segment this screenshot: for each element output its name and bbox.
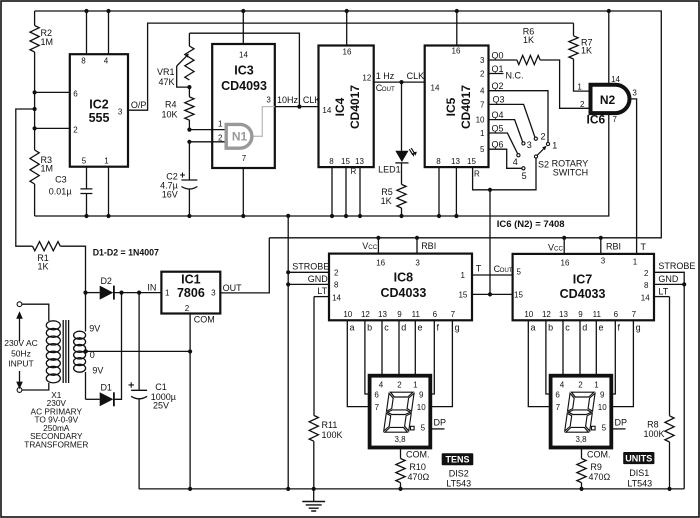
- label IC4: [333, 85, 362, 129]
- svg-text:e: e: [599, 323, 604, 333]
- svg-text:R11: R11: [322, 420, 338, 430]
- svg-text:6: 6: [433, 310, 438, 319]
- pin 5 IC2: [82, 157, 87, 189]
- svg-text:T: T: [476, 264, 482, 274]
- svg-text:15: 15: [458, 291, 467, 300]
- label IC8: [380, 271, 426, 301]
- pin 10 Q4 wire to contact 3: [476, 110, 523, 142]
- wire N1 output gray: [253, 107, 274, 137]
- svg-text:Q1: Q1: [492, 64, 504, 74]
- display DIS1 DP stub: [611, 417, 627, 429]
- svg-text:230V AC: 230V AC: [4, 338, 38, 348]
- resistor R5: [381, 163, 407, 218]
- led LED1: [378, 80, 417, 174]
- svg-text:1K: 1K: [381, 196, 392, 206]
- svg-text:CD4017: CD4017: [459, 85, 473, 129]
- svg-text:DIS2: DIS2: [449, 469, 469, 479]
- svg-text:10: 10: [343, 310, 352, 319]
- svg-text:2: 2: [480, 70, 485, 79]
- pin 3 IC6 output T wire: [630, 89, 638, 254]
- display DIS2 DP stub: [430, 417, 446, 429]
- svg-text:6: 6: [374, 391, 379, 400]
- switch S2 contact 1: [546, 141, 557, 151]
- diode D2: [83, 276, 114, 300]
- terminal input bottom: [17, 388, 22, 393]
- svg-text:c: c: [565, 323, 570, 333]
- svg-text:11: 11: [593, 310, 602, 319]
- svg-text:4: 4: [560, 380, 565, 389]
- pin 14 IC6: [607, 9, 621, 84]
- svg-text:3: 3: [118, 108, 123, 117]
- label IC2: [89, 98, 110, 126]
- svg-text:7: 7: [375, 403, 380, 412]
- svg-text:RBI: RBI: [606, 242, 621, 252]
- svg-text:IC2: IC2: [89, 98, 109, 112]
- pin 2 IC2 wire: [33, 125, 79, 134]
- svg-text:16: 16: [343, 48, 352, 57]
- pin 14 IC7 LT wire: [641, 287, 670, 303]
- resistor R6: [517, 27, 540, 65]
- svg-text:SWITCH: SWITCH: [553, 168, 589, 178]
- svg-text:R10: R10: [409, 462, 426, 472]
- svg-text:2: 2: [580, 100, 585, 109]
- tag TENS: [442, 453, 474, 488]
- wire segment e IC7 pin 11 to DIS1: [593, 310, 604, 376]
- label IC6: [587, 113, 606, 127]
- pin 16 IC4: [343, 9, 352, 57]
- svg-text:1: 1: [218, 120, 223, 129]
- svg-text:7: 7: [556, 403, 561, 412]
- svg-text:6: 6: [555, 391, 560, 400]
- wire segment a IC7 pin 10 to DIS1: [524, 310, 550, 407]
- svg-text:10Hz: 10Hz: [277, 95, 299, 105]
- wire input top to primary: [22, 304, 49, 321]
- svg-text:2: 2: [185, 304, 190, 313]
- svg-text:IC3: IC3: [234, 64, 254, 78]
- wire ground drop left: [286, 214, 290, 491]
- and gate IC6 N2: [591, 85, 630, 113]
- wire R2 to R3 node chain: [34, 52, 36, 150]
- svg-text:DP: DP: [615, 417, 628, 427]
- wire segment d IC8 pin 9 to DIS2: [397, 310, 406, 376]
- capacitor C2: [160, 142, 197, 218]
- svg-text:7: 7: [613, 115, 618, 124]
- display DIS2 seven segment digit: [384, 392, 415, 432]
- wire reset line down to counters: [488, 188, 492, 295]
- switch S2 contact 4: [513, 154, 520, 167]
- pin 2 IC1 COM wire: [185, 304, 215, 491]
- svg-text:100K: 100K: [322, 430, 343, 440]
- svg-text:100K: 100K: [644, 429, 665, 439]
- svg-text:T: T: [641, 242, 647, 252]
- svg-text:3,8: 3,8: [575, 435, 587, 444]
- wire segment f IC7 pin 6 to DIS1: [611, 310, 620, 394]
- pin 3 IC7 RBI: [599, 236, 621, 266]
- svg-text:12: 12: [361, 310, 370, 319]
- svg-text:d: d: [401, 323, 406, 333]
- pin 16 IC7 Vcc: [548, 236, 570, 268]
- svg-text:VR1: VR1: [157, 67, 175, 77]
- transformer X1 secondary coil: [74, 331, 86, 372]
- svg-text:0: 0: [90, 350, 95, 360]
- capacitor C3: [49, 175, 93, 219]
- wire secondary bottom 9V tap: [86, 366, 104, 400]
- svg-text:2: 2: [644, 269, 649, 278]
- wire segment c IC8 pin 13 to DIS2: [378, 310, 389, 376]
- svg-text:14: 14: [239, 51, 248, 60]
- svg-text:IC5: IC5: [444, 97, 458, 116]
- ground symbol: [302, 487, 325, 511]
- svg-text:5: 5: [517, 267, 522, 276]
- svg-text:470Ω: 470Ω: [408, 472, 430, 482]
- svg-text:g: g: [455, 323, 460, 333]
- svg-text:8: 8: [644, 281, 649, 290]
- wire R7 to N2 pin1: [574, 59, 590, 109]
- svg-text:GND: GND: [308, 274, 329, 284]
- pin 1 IC1 IN label: [147, 283, 170, 298]
- wire VR1 feedback from pin3: [189, 33, 301, 109]
- svg-text:3,8: 3,8: [394, 435, 406, 444]
- pin 12 IC4 1Hz Cout wire: [362, 71, 424, 93]
- svg-text:8: 8: [436, 157, 441, 166]
- svg-text:CD4093: CD4093: [221, 79, 267, 93]
- label S2 ROTARY SWITCH: [538, 159, 588, 178]
- wire segment e IC8 pin 11 to DIS2: [412, 310, 423, 376]
- switch S2 contact 2: [534, 132, 545, 142]
- diode D1: [86, 383, 114, 407]
- pin 8 IC5: [436, 157, 441, 218]
- svg-text:Q6: Q6: [492, 140, 504, 150]
- svg-text:7806: 7806: [177, 286, 205, 300]
- ic IC4 CD4017 box: [319, 46, 374, 168]
- svg-text:LT543: LT543: [446, 479, 471, 489]
- svg-text:RBI: RBI: [421, 241, 436, 251]
- svg-text:3: 3: [415, 259, 420, 268]
- svg-text:Q5: Q5: [492, 123, 504, 133]
- display DIS2 pin labels: [374, 380, 426, 444]
- pin 1 IC2: [104, 157, 110, 219]
- svg-text:1: 1: [594, 380, 599, 389]
- pin 5 Q6 wire to contact 5: [480, 140, 522, 169]
- svg-text:2: 2: [334, 269, 339, 278]
- svg-text:5: 5: [82, 157, 87, 166]
- svg-text:4: 4: [513, 157, 518, 167]
- svg-text:1: 1: [552, 141, 557, 151]
- svg-text:R: R: [474, 170, 480, 179]
- svg-text:2: 2: [397, 380, 402, 389]
- pin 3 Q0 wire: [480, 51, 517, 66]
- svg-text:C1: C1: [155, 382, 167, 392]
- svg-text:O/P: O/P: [131, 100, 147, 110]
- svg-text:470Ω: 470Ω: [589, 472, 611, 482]
- svg-text:14: 14: [431, 84, 440, 93]
- wire D1 to IN node: [114, 293, 122, 400]
- pin 15 IC7 label: [514, 291, 523, 300]
- resistor R9: [577, 448, 611, 492]
- svg-text:15: 15: [341, 157, 350, 166]
- svg-text:STROBE: STROBE: [292, 262, 329, 272]
- svg-text:2: 2: [578, 380, 583, 389]
- svg-text:9V: 9V: [89, 323, 100, 333]
- svg-text:LT: LT: [317, 286, 327, 296]
- svg-text:4: 4: [480, 87, 485, 96]
- svg-text:8: 8: [334, 281, 339, 290]
- svg-text:13: 13: [559, 310, 568, 319]
- wire segment g IC8 pin 7 to DIS2: [430, 310, 459, 407]
- svg-text:12: 12: [362, 74, 371, 83]
- svg-text:S2: S2: [538, 160, 549, 170]
- svg-text:16: 16: [452, 47, 461, 56]
- svg-text:47K: 47K: [158, 77, 174, 87]
- svg-text:N.C.: N.C.: [506, 70, 524, 80]
- svg-text:3: 3: [211, 289, 216, 298]
- svg-text:1: 1: [104, 157, 109, 166]
- arrow input up: [16, 311, 23, 341]
- wire IC2 to R1 branch: [16, 107, 37, 246]
- svg-text:1K: 1K: [37, 262, 48, 272]
- pin 3 IC2 O/P wire: [118, 23, 574, 116]
- pin 14 IC3: [239, 9, 248, 60]
- svg-text:15: 15: [467, 157, 476, 166]
- wire segment b IC7 pin 12 to DIS1: [542, 310, 553, 394]
- pin 7 Q3 wire to contact 2: [480, 95, 535, 138]
- svg-text:15: 15: [514, 291, 523, 300]
- wire secondary centre tap 0: [84, 349, 192, 360]
- wire segment f IC8 pin 6 to DIS2: [430, 310, 439, 394]
- resistor R3: [30, 150, 53, 216]
- ic IC1 7806 box: [161, 272, 220, 314]
- pin 15 IC4: [341, 157, 350, 218]
- terminal input top: [17, 302, 22, 307]
- svg-text:13: 13: [451, 157, 460, 166]
- svg-text:13: 13: [355, 157, 364, 166]
- svg-text:UNITS: UNITS: [625, 453, 652, 463]
- svg-text:c: c: [384, 323, 389, 333]
- wire D2 to IC1 IN: [114, 291, 161, 295]
- pin 2 IC8 STROBE wire: [286, 262, 339, 278]
- svg-text:16V: 16V: [162, 190, 178, 200]
- svg-text:TENS: TENS: [445, 455, 469, 465]
- svg-text:10K: 10K: [161, 110, 177, 120]
- svg-text:3: 3: [527, 140, 532, 150]
- ic IC7 CD4033 box: [513, 254, 654, 320]
- wire segment d IC7 pin 9 to DIS1: [578, 310, 587, 376]
- wire ground rail bottom: [139, 488, 684, 490]
- pin 7 IC3: [241, 154, 247, 218]
- svg-text:a: a: [531, 323, 536, 333]
- svg-text:3: 3: [480, 56, 485, 65]
- svg-text:N2: N2: [600, 93, 616, 107]
- svg-text:b: b: [367, 323, 372, 333]
- pin 4 IC2: [104, 9, 111, 66]
- svg-text:OUT: OUT: [500, 267, 513, 274]
- svg-text:50Hz: 50Hz: [11, 349, 31, 359]
- resistor R10: [396, 448, 430, 492]
- svg-text:IC6 (N2) = 7408: IC6 (N2) = 7408: [497, 219, 565, 230]
- wire segment c IC7 pin 13 to DIS1: [559, 310, 570, 376]
- svg-text:1: 1: [633, 258, 638, 267]
- wire R6 to N2 pin2: [540, 60, 589, 108]
- svg-text:R: R: [351, 167, 357, 176]
- svg-text:CD4033: CD4033: [380, 286, 426, 300]
- svg-text:10: 10: [476, 116, 485, 125]
- svg-text:2: 2: [73, 125, 78, 134]
- pin 3 IC1 OUT wire: [211, 238, 269, 298]
- svg-text:CD4033: CD4033: [560, 287, 606, 301]
- wire +6V top rail: [35, 11, 662, 238]
- pin 5 IC7 label: [517, 267, 522, 276]
- pin 8 IC8 GND wire: [286, 274, 339, 290]
- svg-text:7: 7: [451, 310, 456, 319]
- resistor R7: [569, 23, 593, 59]
- svg-text:INPUT: INPUT: [8, 359, 34, 369]
- svg-text:Q3: Q3: [493, 95, 505, 105]
- svg-text:e: e: [418, 323, 423, 333]
- svg-text:DP: DP: [434, 417, 447, 427]
- svg-text:1: 1: [165, 289, 170, 298]
- svg-text:D1-D2 = 1N4007: D1-D2 = 1N4007: [93, 248, 159, 258]
- svg-text:3: 3: [632, 89, 637, 98]
- label IC3: [221, 64, 267, 94]
- switch S2 contact 5: [522, 167, 527, 181]
- svg-text:2: 2: [541, 132, 546, 142]
- svg-text:g: g: [636, 323, 641, 333]
- svg-text:N1: N1: [232, 130, 248, 144]
- svg-text:D1: D1: [100, 383, 112, 393]
- svg-text:COM.: COM.: [406, 450, 430, 460]
- display DIS1 pin labels: [555, 380, 607, 444]
- pin 1 IC3 wire: [187, 120, 226, 132]
- svg-text:7: 7: [242, 154, 247, 163]
- svg-text:R8: R8: [647, 420, 659, 430]
- svg-text:GND: GND: [658, 274, 679, 284]
- switch S2 pole and wiper arm: [534, 146, 546, 158]
- svg-text:9: 9: [578, 310, 583, 319]
- svg-text:D2: D2: [100, 276, 112, 286]
- svg-text:1M: 1M: [41, 164, 54, 174]
- display DIS1 box: [551, 376, 612, 448]
- wire segment a IC8 pin 10 to DIS2: [343, 310, 369, 407]
- label IC5: [444, 85, 473, 129]
- svg-text:11: 11: [412, 310, 421, 319]
- display DIS1 seven segment digit: [565, 392, 596, 432]
- pin 3 IC3 10Hz CLK wire: [266, 95, 320, 107]
- svg-text:9: 9: [397, 310, 402, 319]
- resistor R4: [161, 87, 194, 130]
- svg-text:6: 6: [73, 90, 78, 99]
- ic IC5 CD4017 box: [425, 46, 489, 168]
- svg-text:OUT: OUT: [223, 283, 243, 293]
- svg-text:2: 2: [218, 134, 223, 143]
- svg-text:0.01µ: 0.01µ: [49, 187, 72, 197]
- svg-text:OUT: OUT: [382, 86, 395, 93]
- svg-text:DIS1: DIS1: [629, 468, 649, 478]
- svg-text:12: 12: [542, 310, 551, 319]
- svg-text:COM.: COM.: [587, 450, 611, 460]
- resistor R8: [644, 297, 675, 491]
- label IC1 7806: [177, 273, 205, 301]
- capacitor C1: [129, 293, 176, 489]
- pin 2 IC3 wire: [187, 134, 226, 144]
- svg-text:1M: 1M: [41, 37, 54, 47]
- svg-text:LED1: LED1: [378, 164, 401, 174]
- ic IC8 CD4033 box: [329, 254, 472, 321]
- svg-text:14: 14: [332, 294, 341, 303]
- svg-text:d: d: [582, 323, 587, 333]
- wire input bottom to primary: [22, 383, 49, 390]
- arrow input down: [16, 371, 23, 389]
- svg-text:3: 3: [601, 257, 606, 266]
- pin 13 IC4: [355, 157, 364, 218]
- wire secondary top 9V tap: [86, 293, 101, 334]
- svg-text:1: 1: [480, 129, 485, 138]
- svg-text:7: 7: [632, 310, 637, 319]
- resistor R1: [33, 242, 61, 272]
- svg-text:8: 8: [81, 57, 86, 66]
- transformer X1 primary coil: [46, 321, 60, 383]
- svg-text:CC: CC: [368, 244, 377, 251]
- svg-text:10: 10: [598, 403, 607, 412]
- pin 8 IC2: [81, 9, 88, 66]
- svg-text:1K: 1K: [523, 35, 534, 45]
- pin 14 IC8 LT wire: [314, 286, 342, 303]
- svg-text:IC4: IC4: [333, 97, 347, 116]
- svg-text:1: 1: [413, 380, 418, 389]
- transformer X1 core: [63, 320, 68, 383]
- svg-text:5: 5: [421, 424, 426, 433]
- pin 8 IC4: [329, 157, 334, 218]
- pin 14 IC4 label: [322, 106, 331, 115]
- display DIS2 box: [370, 376, 431, 448]
- svg-text:LT543: LT543: [627, 478, 652, 488]
- pin 16 IC5: [452, 9, 461, 56]
- pin 6 IC2 wire: [33, 90, 79, 99]
- switch S2 contact 3: [522, 140, 532, 150]
- svg-text:5: 5: [602, 424, 607, 433]
- pin 4 Q2 wire to contact 1: [480, 81, 548, 142]
- svg-text:IC7: IC7: [573, 273, 593, 287]
- wire 0V rail top section: [35, 114, 609, 217]
- svg-text:4: 4: [379, 380, 384, 389]
- svg-text:IC8: IC8: [394, 271, 414, 285]
- wire segment g IC7 pin 7 to DIS1: [611, 310, 640, 407]
- svg-text:5: 5: [522, 171, 527, 181]
- svg-text:CD4017: CD4017: [348, 85, 362, 129]
- tag UNITS: [623, 452, 654, 488]
- svg-text:1: 1: [577, 83, 582, 92]
- pin 2 Q1 wire N.C.: [480, 64, 523, 81]
- svg-text:STROBE: STROBE: [658, 261, 695, 271]
- svg-text:R9: R9: [590, 462, 602, 472]
- label D1-D2 = 1N4007: [93, 248, 159, 258]
- svg-text:CC: CC: [554, 246, 563, 253]
- svg-text:7: 7: [480, 100, 485, 109]
- svg-text:1K: 1K: [581, 46, 592, 56]
- svg-text:IN: IN: [147, 283, 156, 293]
- pin 13 IC5: [451, 157, 460, 218]
- pin 16 IC8 Vcc: [362, 236, 385, 268]
- pin 15 IC5 reset wire to switch pole: [467, 157, 536, 190]
- svg-text:13: 13: [378, 310, 387, 319]
- wire segment b IC8 pin 12 to DIS2: [361, 310, 372, 394]
- svg-text:5: 5: [480, 145, 485, 154]
- svg-text:IC1: IC1: [181, 273, 201, 287]
- svg-text:16: 16: [376, 259, 385, 268]
- pin 7 IC6 label: [613, 115, 618, 124]
- pin 1 IC7 T label: [633, 242, 647, 267]
- resistor R11: [309, 297, 342, 489]
- ic IC3 CD4093 box: [212, 44, 275, 168]
